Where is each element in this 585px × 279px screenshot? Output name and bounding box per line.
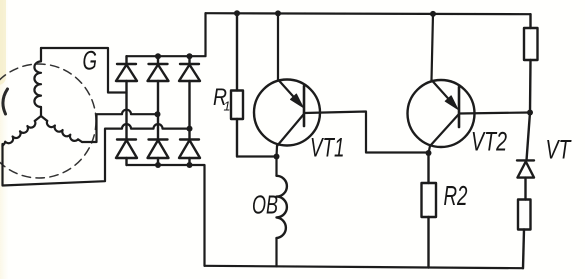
generator stator star: bottom-right winding	[41, 116, 82, 142]
node right rail / VT2 base junction	[527, 110, 533, 116]
transistor VT1	[254, 13, 320, 156]
diode VD1 (top row, column 1)	[116, 56, 137, 139]
generator rotor (dashed circle)	[0, 64, 96, 178]
diode VD6 (bottom row, column 3)	[179, 140, 200, 166]
rectifier bridge: bottom negative bus	[127, 165, 205, 266]
diode VD2 (top row, column 2)	[148, 56, 169, 139]
rectifier bridge: top positive bus	[127, 13, 206, 56]
diode VD4 (bottom row, column 1)	[116, 140, 137, 166]
svg-text:R2: R2	[444, 180, 468, 211]
node VT2 emitter / R2 / VT1 base route junction	[426, 150, 432, 156]
wire R1 bottom to VT1 emitter node	[237, 155, 277, 157]
junction phase B / column 2	[155, 111, 161, 117]
junction phase C / column 3	[187, 126, 193, 132]
diode VD3 (top row, column 3)	[179, 56, 200, 139]
svg-text:G: G	[83, 46, 98, 76]
junction top bus / VT2 collector	[430, 11, 436, 17]
wire phase B (bottom-right winding to bridge column 2), hop over column 1	[82, 110, 158, 142]
junction top bus / diode VD2	[155, 53, 161, 59]
generator stator star: bottom-left winding	[3, 116, 42, 146]
wire top supply bus	[206, 13, 531, 14]
junction top bus / R1	[234, 10, 240, 16]
junction bottom bus / diode VD5	[155, 162, 161, 168]
svg-text:VT2: VT2	[471, 127, 507, 157]
wire phase A (top winding to bridge column 1)	[41, 48, 127, 93]
generator stator star: top winding	[34, 48, 41, 116]
junction bottom bus / diode VD6	[187, 162, 193, 168]
resistor R1	[231, 13, 243, 156]
zener diode VT	[517, 113, 534, 200]
wire bottom return bus	[205, 266, 524, 268]
field winding OB	[277, 157, 287, 267]
junction top bus / VT1 collector	[275, 10, 281, 16]
node VT1 emitter / R1 / OB junction	[274, 154, 280, 160]
svg-text:VT: VT	[546, 135, 573, 165]
resistor R3 (top of right divider)	[524, 14, 538, 112]
resistor R2	[422, 153, 437, 268]
resistor R4 (bottom of right divider)	[518, 200, 531, 269]
junction top bus / diode VD3	[187, 53, 193, 59]
wire VT2 base to right rail	[459, 113, 530, 114]
wire phase C (bottom-left winding to bridge column 3), hops over columns 1 and 2	[3, 124, 190, 185]
svg-text:ОВ: ОВ	[252, 190, 278, 220]
page-edge ink arc (scan artifact)	[3, 89, 8, 114]
diode VD5 (bottom row, column 2)	[148, 140, 169, 166]
transistor VT2	[408, 14, 475, 153]
svg-text:1: 1	[224, 100, 231, 114]
svg-text:VT1: VT1	[310, 133, 345, 163]
wire VT1 base to VT2 emitter node	[304, 112, 429, 153]
paper edge tint	[0, 0, 8, 279]
